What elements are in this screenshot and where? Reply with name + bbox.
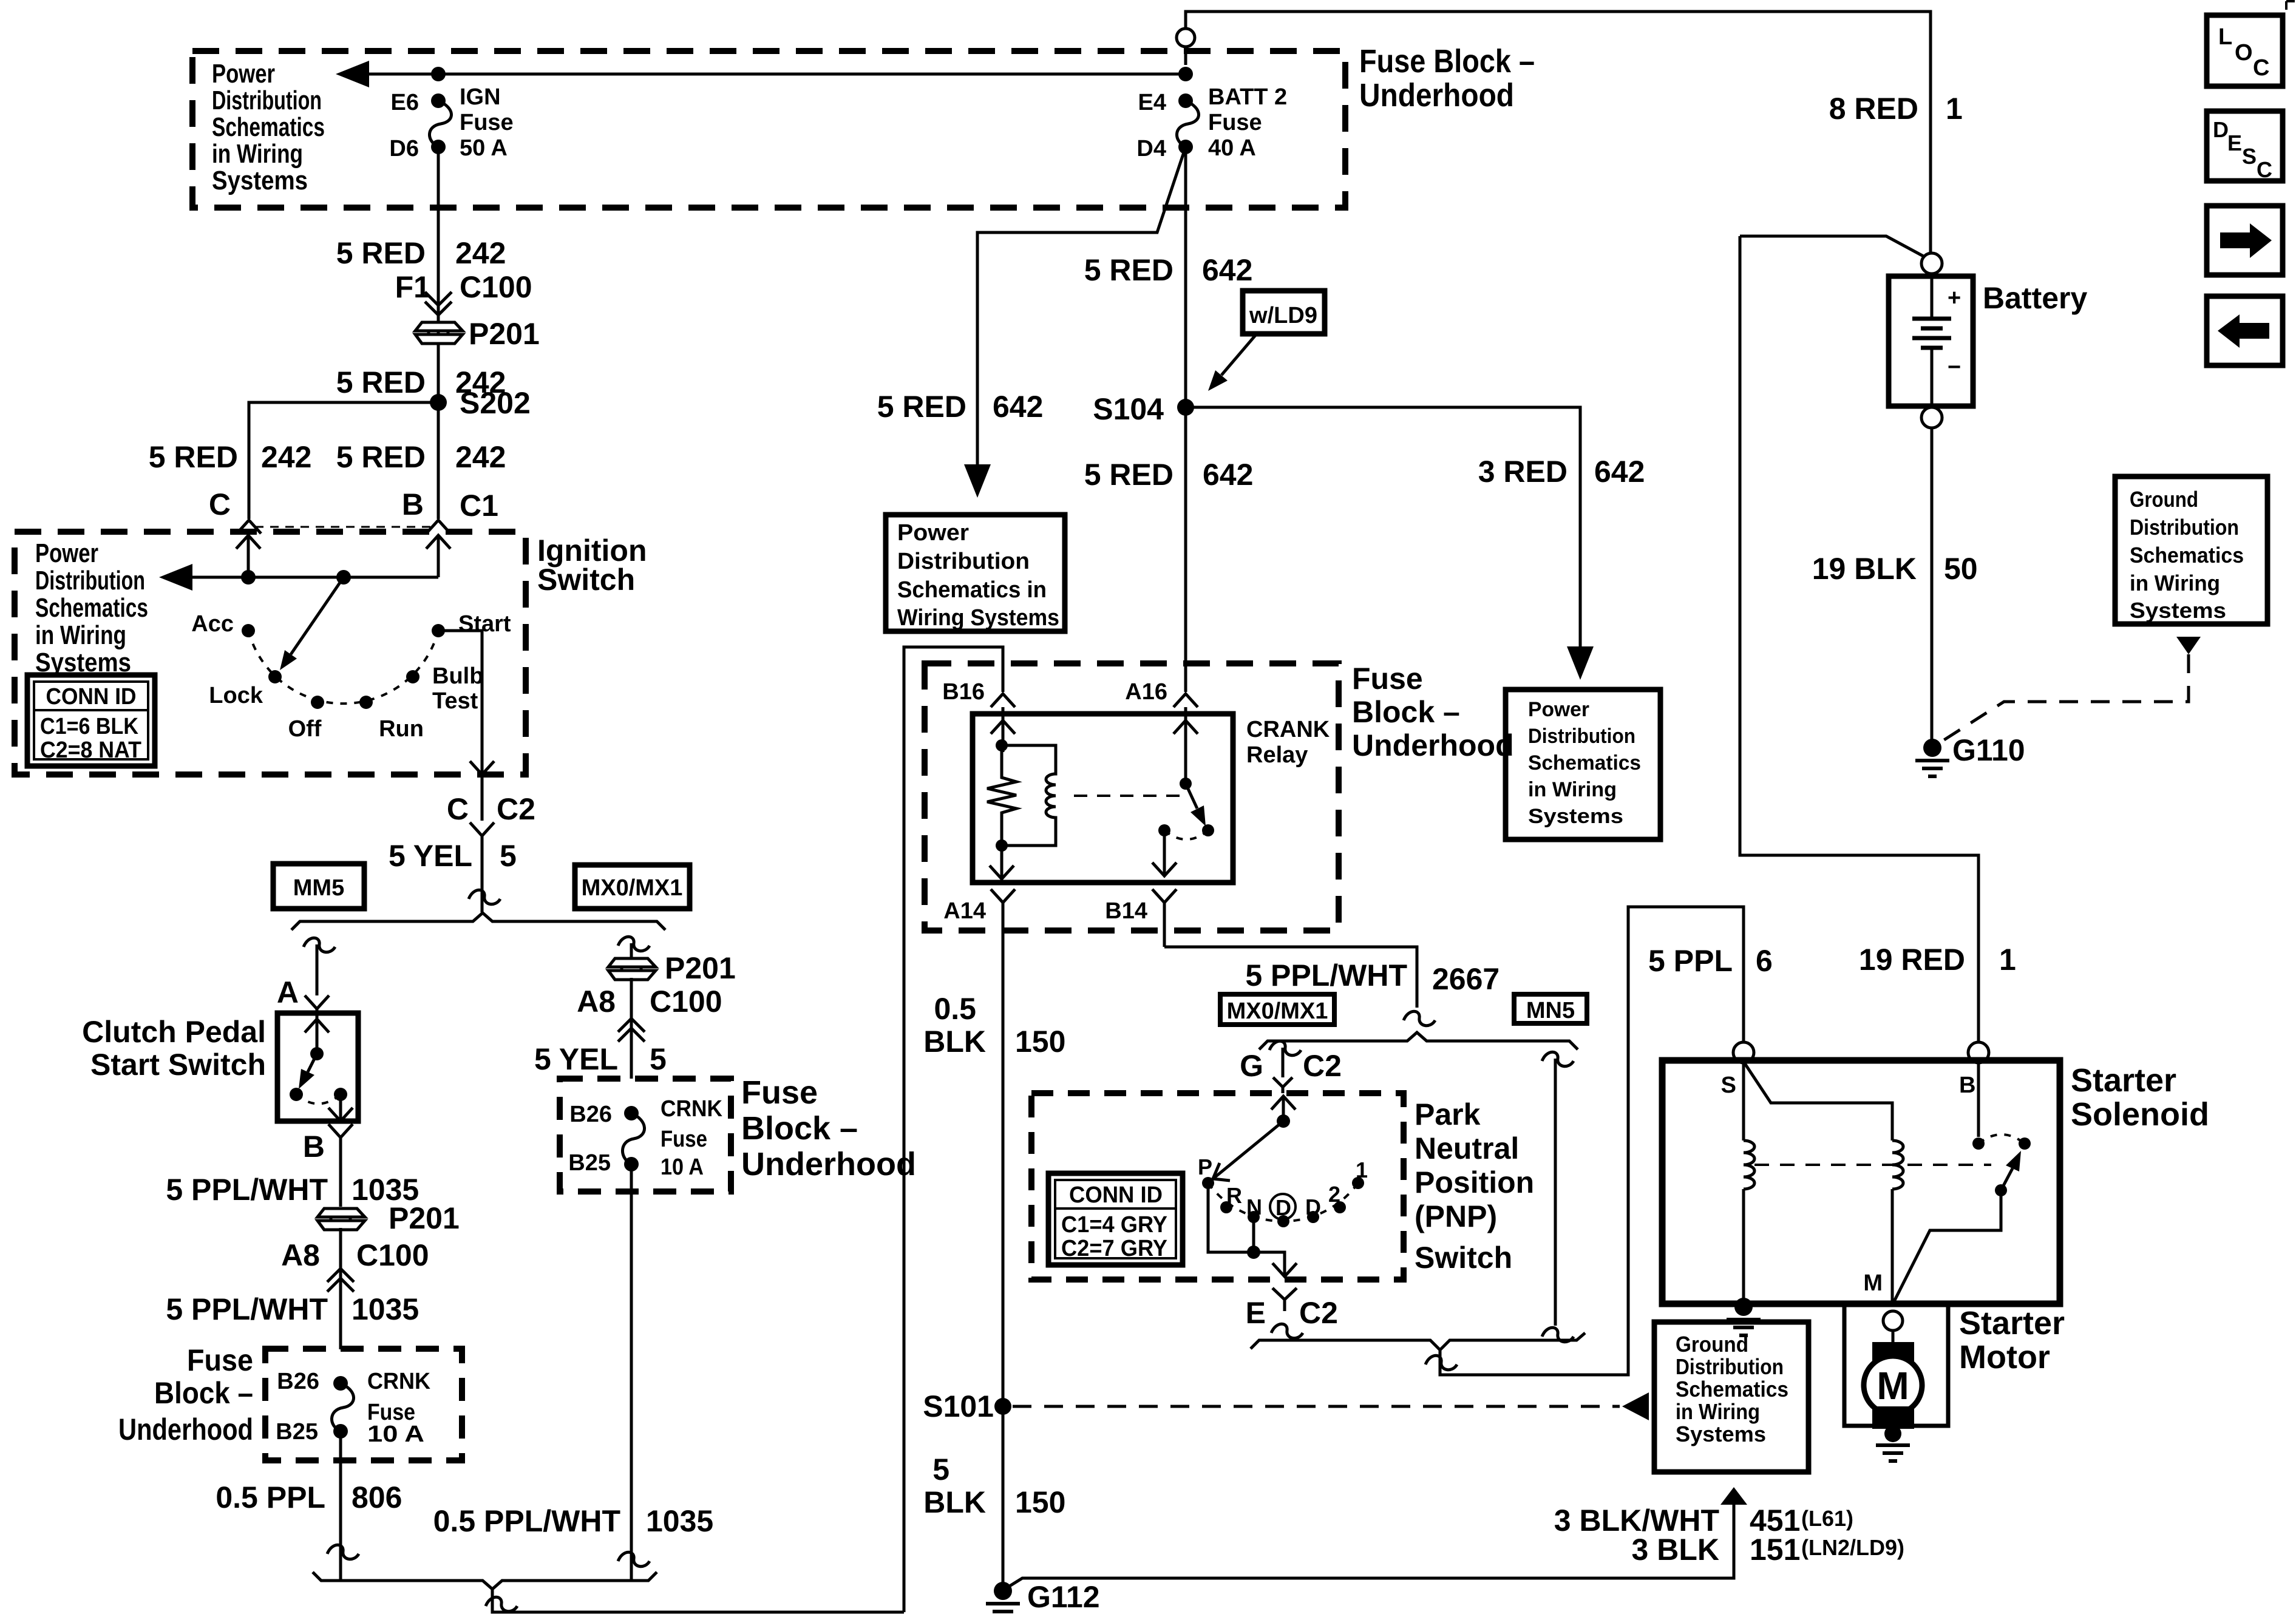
svg-text:3 RED: 3 RED xyxy=(1478,455,1567,489)
svg-text:5: 5 xyxy=(650,1042,667,1076)
wire relay A14 out xyxy=(990,846,1014,880)
break squiggle below merge brace xyxy=(1425,1355,1457,1369)
connector chevron B16 xyxy=(991,694,1015,714)
svg-text:Underhood: Underhood xyxy=(1359,77,1514,114)
wire brace to P201 right branch xyxy=(630,943,633,958)
contact dot clutch right xyxy=(334,1088,347,1101)
svg-text:C1: C1 xyxy=(460,489,498,523)
label Park Neutral Position (PNP) Switch xyxy=(1415,1097,1534,1275)
left arrow nav box xyxy=(2207,296,2283,365)
svg-text:B26: B26 xyxy=(277,1369,319,1394)
fuse IGN 50A symbol xyxy=(431,93,446,108)
node S101 xyxy=(994,1398,1011,1415)
svg-text:G110: G110 xyxy=(1952,733,2025,767)
break squiggle below E xyxy=(1271,1324,1303,1338)
svg-text:151: 151 xyxy=(1750,1533,1800,1567)
break squiggle bypass bottom xyxy=(1542,1327,1574,1341)
svg-text:D: D xyxy=(2213,117,2229,142)
svg-text:5: 5 xyxy=(500,839,517,873)
svg-text:N: N xyxy=(1246,1195,1262,1219)
node junction at IGN fuse tap xyxy=(431,67,446,81)
wire S202 branch left to ignition C xyxy=(249,402,438,519)
svg-text:150: 150 xyxy=(1015,1485,1065,1519)
arrow from w/LD9 to S104 xyxy=(1221,334,1257,375)
svg-text:Power: Power xyxy=(35,538,98,568)
page corner mark xyxy=(2286,1,2295,10)
svg-text:M: M xyxy=(1877,1364,1909,1408)
pin arrow into PNP G xyxy=(1271,1096,1296,1121)
svg-text:5 PPL: 5 PPL xyxy=(1648,944,1733,978)
svg-text:Systems: Systems xyxy=(1676,1422,1766,1446)
svg-text:BATT 2: BATT 2 xyxy=(1208,84,1287,110)
contact dot N xyxy=(1248,1211,1260,1223)
svg-text:MM5: MM5 xyxy=(293,875,344,901)
svg-text:+: + xyxy=(1948,285,1961,311)
pin arrow up to B xyxy=(426,535,450,577)
svg-text:Fuse: Fuse xyxy=(187,1343,253,1377)
pin arrow into clutch switch xyxy=(305,1015,329,1054)
arrow triangle below upper right ground box xyxy=(2176,637,2201,654)
break squiggle to bypass wire xyxy=(1542,1052,1574,1066)
svg-text:Schematics: Schematics xyxy=(35,593,148,623)
svg-text:E4: E4 xyxy=(1138,90,1166,115)
contact dot clutch left xyxy=(290,1088,303,1101)
wire down to splice brace xyxy=(481,850,484,912)
contact dot solenoid right xyxy=(2019,1137,2031,1150)
dashed arc of ignition positions xyxy=(248,631,438,703)
svg-text:E6: E6 xyxy=(391,90,419,115)
merge brace to starter S xyxy=(1251,1333,1585,1350)
contact dot 1 xyxy=(1352,1177,1364,1189)
wire plunger to M terminal xyxy=(1893,1190,2001,1304)
svg-text:D: D xyxy=(1305,1195,1321,1219)
CONN ID box (PNP) xyxy=(1048,1173,1183,1265)
svg-text:G: G xyxy=(1240,1049,1263,1083)
node PNP rotor pivot xyxy=(1277,1114,1290,1128)
svg-text:in Wiring: in Wiring xyxy=(1528,778,1617,801)
contact dot R xyxy=(1220,1201,1232,1213)
svg-text:Ground: Ground xyxy=(2130,487,2198,512)
starter motor symbol xyxy=(1864,1342,1922,1429)
svg-text:Power: Power xyxy=(897,520,969,546)
LOC nav box xyxy=(2207,15,2283,86)
svg-text:(L61): (L61) xyxy=(1801,1506,1853,1531)
svg-text:B25: B25 xyxy=(568,1150,611,1176)
svg-text:Bulb: Bulb xyxy=(432,663,483,689)
svg-text:Lock: Lock xyxy=(209,683,263,708)
MX0/MX1 box (right) xyxy=(1220,994,1334,1025)
wire 5 RED 242 from IGN fuse down to S202 xyxy=(437,147,440,519)
svg-text:P: P xyxy=(1198,1154,1212,1179)
battery negative terminal circle xyxy=(1921,407,1942,428)
clutch switch arm with arrowhead xyxy=(308,1054,317,1072)
fuse block underhood dashed box (top) xyxy=(192,51,1345,208)
svg-text:C: C xyxy=(209,487,231,521)
node relay switch pivot xyxy=(1180,778,1192,790)
solenoid plunger arm with arrowhead xyxy=(2001,1168,2012,1190)
svg-text:C1=4 GRY: C1=4 GRY xyxy=(1061,1212,1167,1238)
connector C100 double chevron up (clutch) xyxy=(327,1269,354,1292)
label Ground Distribution Schematics in Wiring Systems (upper right) xyxy=(2130,487,2244,623)
svg-text:B26: B26 xyxy=(569,1102,612,1127)
svg-text:2: 2 xyxy=(1328,1182,1340,1207)
svg-text:Neutral: Neutral xyxy=(1415,1131,1519,1165)
svg-text:C2: C2 xyxy=(1299,1296,1338,1330)
svg-text:Systems: Systems xyxy=(212,166,308,195)
svg-text:Park: Park xyxy=(1415,1097,1481,1131)
svg-text:CONN ID: CONN ID xyxy=(1069,1182,1163,1208)
label D circled xyxy=(1270,1194,1296,1220)
svg-text:L: L xyxy=(2218,24,2232,50)
connector chevron A14 xyxy=(991,889,1015,931)
dashed actuation link coil to arm xyxy=(1074,795,1181,797)
svg-text:19 RED: 19 RED xyxy=(1859,943,1965,977)
contact dot Run xyxy=(359,696,373,709)
svg-text:CRNK: CRNK xyxy=(661,1096,723,1122)
fuse block dashed box (clutch CRNK) xyxy=(265,1349,462,1460)
connector chevron A16 xyxy=(1173,694,1198,714)
svg-text:CRNK: CRNK xyxy=(367,1369,431,1394)
wire clutch output down xyxy=(328,1094,353,1121)
label Ground Distribution Schematics in Wiring Systems (lower right) xyxy=(1676,1332,1788,1446)
connector P201 pass-through (right branch) xyxy=(608,958,656,980)
svg-text:C: C xyxy=(2253,55,2269,81)
wire top feed with left arrow into power distribution box xyxy=(349,73,1186,76)
pin arrow into relay B16 xyxy=(991,716,1015,752)
break squiggle above bottom brace left xyxy=(327,1545,359,1559)
svg-text:50 A: 50 A xyxy=(460,135,508,161)
svg-text:1: 1 xyxy=(1356,1158,1368,1182)
svg-text:IGN: IGN xyxy=(460,84,501,110)
svg-text:Underhood: Underhood xyxy=(741,1146,916,1182)
svg-text:Fuse: Fuse xyxy=(741,1074,818,1111)
dashed arc solenoid contacts xyxy=(1978,1134,2025,1144)
svg-text:150: 150 xyxy=(1015,1025,1065,1059)
svg-text:5 RED: 5 RED xyxy=(877,390,966,424)
node solenoid plunger pivot xyxy=(1995,1184,2007,1196)
svg-text:Distribution: Distribution xyxy=(1676,1354,1784,1379)
svg-text:A: A xyxy=(277,975,299,1009)
svg-text:50: 50 xyxy=(1944,552,1978,586)
wire battery positive feed xyxy=(1740,236,1924,257)
svg-text:C100: C100 xyxy=(650,985,722,1019)
pull-in winding coil xyxy=(1892,1141,1903,1189)
resistor (relay) xyxy=(987,745,1016,846)
node open circle top feed xyxy=(1177,29,1195,47)
node clutch switch pivot xyxy=(310,1047,324,1060)
splice brace PNP feed xyxy=(1259,1032,1578,1049)
svg-text:C100: C100 xyxy=(460,270,532,304)
svg-text:Clutch Pedal: Clutch Pedal xyxy=(82,1015,266,1049)
break squiggle above bottom brace right xyxy=(618,1552,650,1566)
svg-text:5 PPL/WHT: 5 PPL/WHT xyxy=(166,1292,328,1326)
svg-text:Starter: Starter xyxy=(2071,1062,2176,1099)
svg-text:Switch: Switch xyxy=(537,563,635,597)
dashed arc relay contacts xyxy=(1164,830,1208,839)
svg-text:806: 806 xyxy=(352,1480,402,1514)
svg-text:S: S xyxy=(2242,144,2257,169)
svg-text:5 RED: 5 RED xyxy=(149,440,238,474)
svg-text:Ground: Ground xyxy=(1676,1332,1748,1357)
contact dot Off xyxy=(311,696,324,709)
starter motor housing box xyxy=(1844,1304,1948,1426)
svg-text:C100: C100 xyxy=(356,1238,429,1272)
break squiggle to G pin xyxy=(1269,1041,1301,1055)
wire from Start down out of box xyxy=(438,631,494,821)
wire ignition feed bus with left arrow xyxy=(171,576,438,579)
svg-text:5 RED: 5 RED xyxy=(336,236,426,270)
svg-text:MN5: MN5 xyxy=(1526,998,1575,1023)
splice brace MM5/MX0 xyxy=(291,913,665,930)
svg-text:Schematics: Schematics xyxy=(1528,751,1641,775)
svg-text:Start: Start xyxy=(458,611,511,637)
wire brace to G xyxy=(1282,1048,1285,1077)
svg-text:D: D xyxy=(1275,1195,1291,1220)
connector C100 double chevron up (right branch) xyxy=(618,1019,645,1042)
dashed wire from ground box to G110 xyxy=(1940,654,2189,742)
svg-text:Relay: Relay xyxy=(1246,742,1308,768)
contact dot solenoid left xyxy=(1972,1137,1985,1150)
contact dot relay left xyxy=(1158,824,1170,836)
svg-text:1: 1 xyxy=(1999,943,2016,977)
contact dot Lock xyxy=(268,670,282,683)
svg-text:Systems: Systems xyxy=(1528,805,1623,828)
node on bus at C pin xyxy=(241,570,256,585)
svg-text:5 RED: 5 RED xyxy=(1084,253,1173,287)
svg-text:Distribution: Distribution xyxy=(1528,725,1635,748)
svg-text:Systems: Systems xyxy=(2130,598,2226,623)
svg-text:(PNP): (PNP) xyxy=(1415,1199,1497,1233)
CRANK relay box xyxy=(973,714,1233,883)
svg-text:5 YEL: 5 YEL xyxy=(389,839,472,873)
MX0/MX1 box (left) xyxy=(575,865,690,909)
wire N contact to output xyxy=(1252,1217,1255,1252)
svg-text:B25: B25 xyxy=(276,1419,318,1445)
svg-text:Block –: Block – xyxy=(154,1376,253,1410)
svg-text:A16: A16 xyxy=(1125,679,1167,705)
connector chevron C xyxy=(237,520,261,534)
svg-text:F1: F1 xyxy=(395,270,430,304)
wire B16 outer loop down left side xyxy=(904,647,1003,1612)
wire M terminal to motor xyxy=(1892,1331,1895,1344)
svg-text:Distribution: Distribution xyxy=(35,566,145,595)
svg-text:1035: 1035 xyxy=(352,1292,419,1326)
pin arrow into relay A16 xyxy=(1173,716,1198,784)
wire S104 branch right to 3 RED drop xyxy=(1186,407,1580,663)
wire hold-in winding to ground xyxy=(1742,1189,1745,1304)
svg-text:−: − xyxy=(1948,354,1961,380)
svg-text:Distribution: Distribution xyxy=(897,549,1030,574)
node PNP output junction xyxy=(1247,1246,1260,1259)
svg-text:Battery: Battery xyxy=(1983,281,2087,315)
svg-text:Motor: Motor xyxy=(1959,1339,2050,1375)
svg-text:Block –: Block – xyxy=(1352,695,1460,729)
svg-text:C2=7 GRY: C2=7 GRY xyxy=(1061,1236,1167,1261)
svg-text:242: 242 xyxy=(455,440,506,474)
connector chevron B14 xyxy=(1152,889,1177,947)
contact dot D xyxy=(1307,1211,1319,1223)
fuse block dashed box (right CRNK) xyxy=(560,1079,731,1192)
CONN ID box (ignition) xyxy=(27,675,155,766)
ground G112 xyxy=(986,1582,1020,1612)
svg-text:O: O xyxy=(2235,40,2253,66)
svg-text:E: E xyxy=(1246,1296,1266,1330)
svg-text:Schematics in: Schematics in xyxy=(897,577,1047,603)
wire relay B14 out xyxy=(1152,830,1177,876)
connector boundary thin dashed line C100 xyxy=(255,526,432,528)
fuse CRNK 10A (clutch) xyxy=(333,1376,348,1391)
node junction above BATT2 fuse xyxy=(1178,67,1193,81)
svg-text:1: 1 xyxy=(1946,92,1963,126)
svg-text:642: 642 xyxy=(1594,455,1645,489)
svg-text:5 RED: 5 RED xyxy=(336,365,426,399)
svg-text:S202: S202 xyxy=(460,386,531,420)
svg-text:CRANK: CRANK xyxy=(1246,717,1330,742)
svg-text:Test: Test xyxy=(432,688,478,714)
wire battery top feed xyxy=(1186,12,1931,253)
dashed arc PNP positions xyxy=(1208,1183,1358,1221)
wire brace to clutch A xyxy=(316,944,319,995)
starter solenoid box xyxy=(1662,1060,2060,1304)
svg-text:642: 642 xyxy=(1203,458,1253,492)
starter solenoid B terminal circle xyxy=(1968,1042,1989,1063)
battery box xyxy=(1889,276,1973,406)
svg-text:R: R xyxy=(1226,1183,1242,1208)
label Power Distribution Schematics in Wiring Systems (top box) xyxy=(212,59,325,195)
wire 19 RED from battery to solenoid B xyxy=(1740,236,1978,1043)
svg-text:10 A: 10 A xyxy=(367,1422,424,1447)
svg-text:B: B xyxy=(402,487,424,521)
svg-text:Fuse: Fuse xyxy=(1208,110,1262,135)
wire below CRNK right down to bottom brace xyxy=(630,1164,633,1579)
svg-text:E: E xyxy=(2227,131,2242,155)
svg-text:Fuse Block –: Fuse Block – xyxy=(1359,43,1535,80)
starter motor M terminal circle xyxy=(1883,1311,1903,1331)
connector chevron E/C2 xyxy=(1272,1288,1297,1311)
ground at starter motor xyxy=(1876,1425,1910,1461)
svg-text:0.5: 0.5 xyxy=(934,992,976,1026)
wire BATT2 D4 slant down to power distribution arrow xyxy=(977,147,1186,480)
svg-text:Starter: Starter xyxy=(1959,1305,2065,1341)
svg-text:MX0/MX1: MX0/MX1 xyxy=(582,875,683,901)
fuse BATT 2 40A symbol xyxy=(1178,93,1193,108)
wire BATT2 D4 down to S104 xyxy=(1184,147,1187,692)
svg-text:BLK: BLK xyxy=(923,1025,986,1059)
connector chevron C/C2 xyxy=(470,822,494,850)
svg-text:2667: 2667 xyxy=(1432,962,1500,996)
svg-text:B14: B14 xyxy=(1105,898,1147,924)
svg-text:P201: P201 xyxy=(469,317,540,351)
svg-text:Solenoid: Solenoid xyxy=(2071,1096,2209,1133)
node relay coil top xyxy=(996,739,1008,751)
power distribution box (right) xyxy=(1506,690,1660,839)
svg-text:B: B xyxy=(1959,1073,1975,1098)
ground distribution box (upper right) xyxy=(2115,476,2267,624)
svg-text:C1=6 BLK: C1=6 BLK xyxy=(40,714,138,739)
svg-text:Distribution: Distribution xyxy=(2130,515,2239,540)
svg-text:Acc: Acc xyxy=(191,611,234,637)
svg-text:Schematics: Schematics xyxy=(2130,543,2244,568)
fuse CRNK 10A (right) xyxy=(624,1106,639,1120)
PNP switch dashed box xyxy=(1031,1093,1404,1280)
dashed wire S101 to ground distribution box xyxy=(1013,1405,1620,1408)
battery internal cells xyxy=(1912,274,1951,406)
right arrow nav box xyxy=(2207,206,2283,275)
break squiggle clutch branch xyxy=(304,938,335,952)
svg-text:Fuse: Fuse xyxy=(661,1127,707,1152)
connector P201 pass-through (top) xyxy=(415,322,463,344)
svg-text:Underhood: Underhood xyxy=(118,1412,253,1446)
svg-text:Power: Power xyxy=(212,59,275,89)
MM5 box xyxy=(273,864,364,909)
svg-text:Schematics: Schematics xyxy=(212,112,325,142)
wire below CRNK fuse (clutch) xyxy=(339,1431,342,1579)
svg-text:(LN2/LD9): (LN2/LD9) xyxy=(1801,1535,1904,1560)
svg-text:3 BLK: 3 BLK xyxy=(1632,1533,1719,1567)
wire S to hold-in winding xyxy=(1742,1064,1745,1141)
svg-text:C2: C2 xyxy=(1303,1049,1342,1083)
connector P201 pass-through (clutch) xyxy=(318,1209,365,1230)
svg-text:in Wiring: in Wiring xyxy=(1676,1399,1760,1424)
DESC nav box xyxy=(2207,111,2283,182)
wire from bottom brace right to ground loop riser xyxy=(492,1589,904,1612)
wire S branch to pull-in winding xyxy=(1745,1063,1892,1141)
label Power Distribution Schematics in Wiring Systems (ignition box) xyxy=(35,538,148,677)
svg-text:Block –: Block – xyxy=(741,1110,858,1147)
clutch pedal start switch box xyxy=(277,1013,358,1121)
node on bus at rotor xyxy=(336,570,351,585)
wire below P201 right branch xyxy=(630,978,633,1079)
svg-text:Underhood: Underhood xyxy=(1352,728,1514,762)
starter solenoid S terminal circle xyxy=(1733,1042,1754,1063)
break squiggle below bottom brace xyxy=(486,1597,517,1611)
contact dot Acc xyxy=(242,624,255,637)
svg-text:642: 642 xyxy=(993,390,1043,424)
svg-text:5 YEL: 5 YEL xyxy=(534,1042,618,1076)
svg-text:642: 642 xyxy=(1202,253,1252,287)
svg-text:19 BLK: 19 BLK xyxy=(1812,552,1917,586)
svg-text:Start Switch: Start Switch xyxy=(90,1048,266,1082)
PNP rotor arm with arrowhead xyxy=(1213,1121,1283,1181)
pin arrow up to C xyxy=(236,535,260,577)
svg-text:CONN ID: CONN ID xyxy=(46,684,137,710)
svg-text:Fuse: Fuse xyxy=(460,110,514,135)
svg-text:C2=8 NAT: C2=8 NAT xyxy=(40,737,141,763)
dashed arc clutch contacts xyxy=(296,1094,341,1104)
svg-text:Wiring Systems: Wiring Systems xyxy=(897,605,1059,631)
svg-text:Switch: Switch xyxy=(1415,1241,1512,1275)
svg-text:242: 242 xyxy=(455,236,506,270)
svg-text:A8: A8 xyxy=(281,1238,320,1272)
connector chevron B (clutch) xyxy=(328,1124,353,1151)
svg-text:D6: D6 xyxy=(389,136,419,161)
ignition switch dashed box xyxy=(15,532,526,775)
arrow triangle below lower right ground box xyxy=(1720,1487,1747,1505)
svg-text:Fuse: Fuse xyxy=(1352,662,1423,696)
svg-text:w/LD9: w/LD9 xyxy=(1249,303,1317,328)
svg-text:242: 242 xyxy=(261,440,311,474)
svg-text:P201: P201 xyxy=(665,951,736,985)
svg-text:8 RED: 8 RED xyxy=(1829,92,1918,126)
wire PNP output to E xyxy=(1254,1252,1297,1276)
wire G112 to engine ground labels xyxy=(1005,1505,1734,1589)
svg-text:5 RED: 5 RED xyxy=(336,440,426,474)
svg-text:10 A: 10 A xyxy=(661,1154,704,1180)
ground at solenoid case xyxy=(1727,1298,1761,1335)
ground distribution box (lower right) xyxy=(1654,1322,1809,1472)
contact dot D-drive xyxy=(1277,1215,1289,1227)
svg-text:in Wiring: in Wiring xyxy=(35,620,126,650)
